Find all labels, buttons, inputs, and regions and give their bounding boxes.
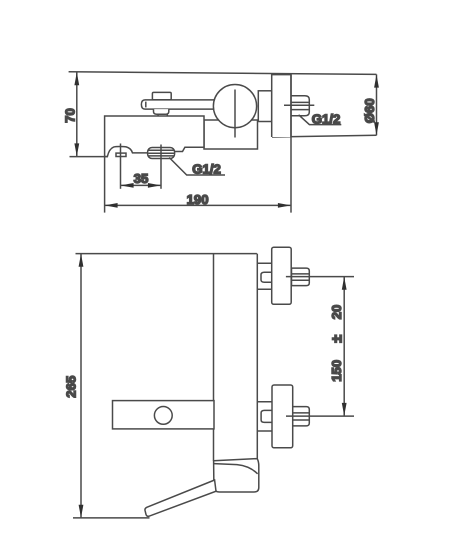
dimension 35 arrow right: [148, 183, 161, 188]
svg-text:G1/2: G1/2: [192, 161, 221, 176]
top extension line 2: [76, 253, 257, 255]
leader G1/2 bottom: [169, 158, 225, 176]
lever bar: [141, 100, 219, 109]
svg-text:G1/2: G1/2: [312, 111, 341, 126]
body column left edge: [213, 254, 215, 461]
bottom inlet nipple side view: [292, 407, 310, 426]
bottom valve notch: [261, 410, 272, 422]
svg-text:265: 265: [64, 376, 79, 398]
nipple center line: [284, 104, 314, 106]
nipple thread line 2: [291, 109, 309, 111]
inlet nipple top view: [291, 96, 310, 116]
lever nut: [154, 109, 169, 114]
dimension 35 right extension: [160, 145, 162, 189]
dimension D60 arrow up: [374, 75, 379, 88]
top escutcheon: [272, 247, 292, 304]
dimension D60 line: [376, 74, 378, 135]
cartridge housing: [204, 120, 258, 149]
spout seam curve: [214, 464, 258, 474]
dimension 265 arrow down: [79, 505, 84, 518]
dimension 265 line: [80, 254, 82, 518]
dimension 35 line: [121, 184, 162, 186]
outlet thread line 3: [149, 155, 174, 157]
outlet thread line 2: [148, 152, 174, 154]
svg-text:150: 150: [329, 360, 344, 382]
leader G1/2 top: [299, 115, 342, 125]
svg-text:20: 20: [329, 305, 344, 320]
lever end cap line: [145, 102, 147, 108]
dimension 190 arrow left: [105, 203, 118, 208]
dimension 150+-20 line: [343, 277, 345, 417]
wall plate top view: [272, 75, 291, 137]
dimension 35 left extension: [120, 144, 122, 189]
handle screw circle: [154, 407, 172, 425]
nipple thread line 1: [291, 101, 309, 103]
dome inner rect: [116, 153, 126, 156]
dimension 70 bottom extension: [70, 156, 109, 158]
dimension 150 arrow down: [342, 403, 347, 416]
faucet body top view: [105, 116, 204, 157]
spout block: [214, 459, 259, 492]
bottom valve connector lines: [257, 402, 272, 431]
dimension 265 arrow up: [79, 254, 84, 267]
top valve center line: [286, 276, 354, 278]
dimension 190 left extension: [104, 157, 106, 213]
svg-text:35: 35: [134, 171, 149, 186]
outlet thread line 1: [149, 149, 174, 151]
outlet port G1/2: [148, 148, 175, 159]
bottom valve center line: [286, 415, 354, 417]
dimension 190 arrow right: [278, 203, 291, 208]
dimension D60 arrow down: [374, 122, 379, 135]
spout tube: [145, 480, 216, 516]
svg-text:190: 190: [187, 192, 209, 207]
dimension 70 arrow up: [74, 72, 79, 85]
lever nut base: [158, 114, 167, 116]
top valve connector lines: [257, 263, 271, 289]
handle lever side view: [113, 401, 215, 429]
handle center line: [234, 90, 236, 138]
dimension 190 right extension / plate edge: [290, 75, 292, 213]
body column right edge: [256, 254, 258, 459]
handle knob circle: [213, 85, 256, 128]
dimension D60 bottom extension: [272, 135, 377, 137]
top inlet nipple side view: [292, 268, 310, 286]
dimension 150 arrow up: [342, 277, 347, 290]
top valve notch: [261, 272, 272, 282]
connector block top view: [258, 91, 271, 122]
lever knob: [152, 92, 171, 99]
svg-text:70: 70: [63, 108, 78, 123]
dimension 190 line: [105, 204, 292, 206]
svg-text:±: ±: [330, 335, 346, 343]
top nipple thread lines: [292, 274, 310, 280]
dimension 70 line: [76, 73, 78, 157]
dimension 70 arrow down: [74, 143, 79, 156]
dimension 35 arrow left: [121, 183, 134, 188]
top extension line: [69, 72, 377, 75]
bottom nipple thread lines: [292, 413, 310, 420]
svg-text:Ø60: Ø60: [362, 98, 377, 123]
bottom escutcheon: [272, 385, 293, 448]
dimension 265 bottom extension: [73, 517, 150, 519]
